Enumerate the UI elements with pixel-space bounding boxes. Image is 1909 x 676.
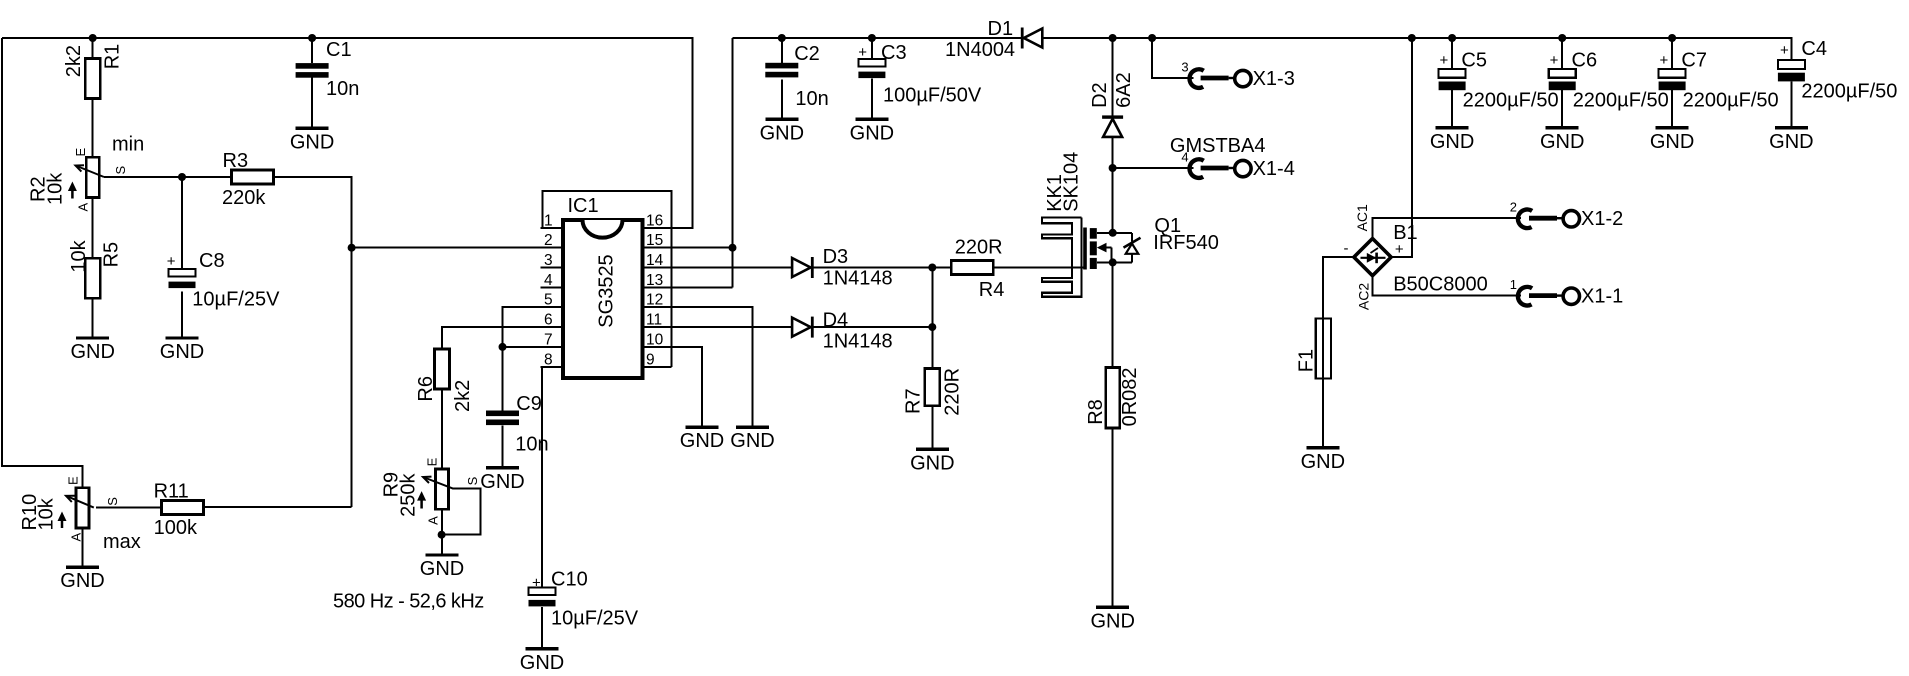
svg-text:2200µF/50: 2200µF/50 [1801, 81, 1897, 103]
svg-text:GND: GND [1650, 131, 1694, 153]
ground C5 [1430, 128, 1474, 153]
node X1-4 junction [1109, 164, 1117, 172]
connector X1-3 [1181, 60, 1294, 91]
svg-text:S: S [113, 166, 128, 175]
node pin2 junction [348, 244, 356, 252]
svg-text:15: 15 [646, 232, 663, 249]
capacitor C6 [1549, 49, 1669, 111]
svg-text:A: A [76, 203, 91, 212]
svg-text:+: + [532, 575, 541, 592]
fuse F1 [1295, 318, 1331, 378]
node R2 wiper junction [178, 173, 186, 181]
resistor R7 [903, 368, 964, 416]
node B1 plus junction [1408, 34, 1416, 42]
wire R3 to pin2 vertical [274, 177, 352, 507]
svg-text:GND: GND [1301, 451, 1345, 473]
bridge rectifier B1 B50C8000 [1344, 204, 1488, 310]
svg-text:X1-3: X1-3 [1253, 68, 1295, 90]
svg-text:C10: C10 [551, 569, 588, 591]
wire R1 to R2 [92, 99, 94, 158]
wire X1-4 node to drain [1112, 168, 1114, 233]
connector X1-4 [1181, 150, 1294, 181]
wire C9 to ground [502, 425, 504, 468]
svg-text:B1: B1 [1393, 222, 1417, 244]
svg-text:B50C8000: B50C8000 [1393, 274, 1488, 296]
svg-text:100µF/50V: 100µF/50V [883, 85, 982, 107]
svg-text:SG3525: SG3525 [596, 254, 618, 327]
svg-text:1N4148: 1N4148 [823, 268, 893, 290]
resistor R5 [68, 239, 122, 298]
wire pin8 to C10 [542, 367, 563, 588]
svg-text:X1-4: X1-4 [1253, 158, 1295, 180]
svg-text:GND: GND [1769, 131, 1813, 153]
ground C7 [1650, 128, 1694, 153]
svg-text:+: + [858, 44, 867, 61]
wire supply rail right of D1 [1044, 38, 1792, 60]
resistor R6 [415, 349, 474, 412]
svg-text:10k: 10k [68, 239, 90, 272]
ground R9 [420, 555, 464, 580]
svg-text:10k: 10k [44, 172, 66, 205]
connector X1-1 [1510, 277, 1623, 308]
svg-text:+: + [1550, 52, 1559, 69]
svg-text:GND: GND [480, 471, 524, 493]
svg-text:2200µF/50: 2200µF/50 [1683, 90, 1779, 112]
wire C3 to ground [871, 78, 873, 119]
label frequency range [333, 591, 484, 613]
resistor R1 [63, 44, 124, 99]
svg-text:6: 6 [544, 312, 553, 329]
svg-text:D1: D1 [988, 18, 1014, 40]
svg-text:GND: GND [850, 122, 894, 144]
svg-text:10µF/25V: 10µF/25V [551, 608, 639, 630]
svg-text:C4: C4 [1801, 38, 1827, 60]
svg-text:R3: R3 [223, 150, 249, 172]
ground C10 [520, 649, 564, 674]
svg-text:10k: 10k [35, 497, 57, 530]
wire B1 AC1 to X1-2 [1373, 218, 1522, 239]
svg-text:GND: GND [290, 131, 334, 153]
wire R2 wiper to node [104, 176, 182, 178]
svg-text:GND: GND [760, 122, 804, 144]
svg-text:220R: 220R [955, 237, 1003, 259]
svg-text:C7: C7 [1681, 49, 1707, 71]
wire pin12 to ground [641, 307, 753, 427]
svg-text:3: 3 [1181, 60, 1188, 75]
svg-text:A: A [68, 533, 83, 542]
svg-text:2200µF/50: 2200µF/50 [1573, 90, 1669, 112]
svg-text:2: 2 [1510, 200, 1517, 215]
svg-text:R6: R6 [415, 376, 437, 402]
capacitor C1 [296, 39, 360, 100]
diode D4 1N4148 [792, 310, 893, 353]
wire C6 top [1561, 38, 1563, 69]
svg-text:GND: GND [420, 558, 464, 580]
svg-text:10n: 10n [795, 88, 828, 110]
node R1/VREF junction [89, 34, 97, 42]
wire B1 plus to rail [1391, 38, 1412, 257]
wire R10 wiper to R11 [96, 507, 162, 509]
wire R6 to R9 [441, 388, 443, 469]
svg-text:10: 10 [646, 331, 664, 348]
svg-text:GND: GND [1540, 131, 1584, 153]
svg-text:2: 2 [544, 232, 553, 249]
wire C5 to ground [1451, 90, 1453, 128]
svg-text:D3: D3 [823, 246, 849, 268]
wire C8 to ground [181, 291, 183, 338]
node D3 output junction [928, 264, 936, 272]
svg-text:max: max [103, 531, 141, 553]
potentiometer R9 [381, 457, 480, 525]
capacitor C5 [1439, 49, 1559, 111]
svg-text:3: 3 [544, 252, 553, 269]
svg-text:X1-2: X1-2 [1581, 208, 1623, 230]
wire R8 to ground [1112, 428, 1114, 607]
svg-text:GND: GND [160, 341, 204, 363]
svg-text:C1: C1 [326, 39, 352, 61]
diode D1 1N4004 [945, 18, 1042, 61]
svg-text:IRF540: IRF540 [1153, 232, 1219, 254]
svg-text:D4: D4 [823, 310, 849, 332]
node C1 junction [308, 34, 316, 42]
capacitor C9 [486, 393, 549, 456]
svg-text:E: E [425, 457, 440, 466]
ground C2 [760, 119, 804, 144]
wire C2 top [781, 38, 783, 63]
svg-text:2k2: 2k2 [63, 45, 85, 77]
svg-text:C3: C3 [881, 42, 907, 64]
resistor R11 [154, 481, 204, 540]
svg-text:2200µF/50: 2200µF/50 [1463, 90, 1559, 112]
ground pin12 [730, 427, 774, 452]
wire R2 to R5 [92, 198, 94, 259]
svg-text:S: S [465, 476, 480, 485]
label max [103, 531, 141, 553]
svg-text:AC1: AC1 [1354, 204, 1370, 231]
svg-text:+: + [1660, 52, 1669, 69]
arrow R10 adjust [58, 512, 67, 529]
svg-text:14: 14 [646, 252, 664, 269]
wire R1 top [92, 37, 94, 59]
wire VCC rail left of D1 [733, 37, 1021, 39]
node C5 junction [1448, 34, 1456, 42]
svg-text:GND: GND [70, 341, 114, 363]
potentiometer R2 [27, 148, 128, 212]
capacitor C7 [1659, 49, 1779, 111]
svg-text:1: 1 [544, 212, 553, 229]
wire R9 to ground [441, 507, 443, 555]
ground pin10 [680, 427, 724, 452]
svg-text:13: 13 [646, 272, 663, 289]
label GMSTBA4 [1170, 135, 1266, 157]
node R9 bottom junction [438, 531, 446, 539]
ground C8 [160, 338, 204, 363]
node C7 junction [1668, 34, 1676, 42]
svg-text:GMSTBA4: GMSTBA4 [1170, 135, 1266, 157]
svg-text:10µF/25V: 10µF/25V [192, 289, 280, 311]
ground C6 [1540, 128, 1584, 153]
svg-text:GND: GND [730, 430, 774, 452]
svg-text:AC2: AC2 [1355, 283, 1371, 310]
resistor R8 [1085, 367, 1141, 428]
wire C1 to ground [311, 76, 313, 128]
ground F1 [1301, 448, 1345, 473]
svg-text:1N4004: 1N4004 [945, 39, 1015, 61]
wire D3 node to R7 [931, 268, 933, 369]
ground R8 [1090, 607, 1134, 632]
svg-text:GND: GND [520, 652, 564, 674]
wire R10 to ground [82, 528, 84, 568]
svg-text:C6: C6 [1572, 49, 1598, 71]
svg-text:R4: R4 [979, 279, 1005, 301]
svg-text:D2: D2 [1089, 82, 1111, 108]
wire R4 to gate [994, 267, 1086, 269]
label min [112, 134, 144, 156]
arrow R9 adjust [417, 491, 426, 508]
wire D2 to X1-4 node [1112, 138, 1114, 169]
svg-text:11: 11 [646, 312, 662, 329]
svg-text:+: + [1780, 42, 1789, 59]
svg-text:2k2: 2k2 [452, 380, 474, 412]
svg-text:10n: 10n [515, 434, 548, 456]
svg-text:GND: GND [910, 452, 954, 474]
svg-text:R1: R1 [102, 44, 124, 70]
wire D4 to node [814, 326, 933, 328]
svg-text:C5: C5 [1461, 49, 1487, 71]
wire R7 to ground [931, 406, 933, 450]
wire C7 to ground [1671, 90, 1673, 128]
svg-text:IC1: IC1 [568, 195, 599, 217]
svg-text:S: S [105, 497, 120, 506]
connector X1-2 [1510, 200, 1623, 231]
svg-text:GND: GND [60, 570, 104, 592]
diode D2 6A2 [1089, 72, 1135, 137]
wire node to R3 [182, 176, 231, 178]
svg-text:A: A [425, 516, 440, 525]
wire D3 to node [814, 267, 933, 269]
svg-text:1: 1 [1510, 277, 1517, 292]
wire C2 to ground [781, 80, 783, 120]
wire C4 to ground [1790, 82, 1792, 128]
wire C7 top [1671, 38, 1673, 69]
wire B1 AC2 to X1-1 [1373, 276, 1522, 296]
ground C3 [850, 119, 894, 144]
wire D2 branch upper [1112, 38, 1114, 115]
capacitor C8 [167, 250, 280, 311]
wire C10 to ground [541, 607, 543, 649]
arrow R2 adjust [68, 182, 77, 199]
wire C3 top [871, 38, 873, 59]
capacitor C4 [1778, 38, 1898, 102]
ground C4 [1769, 128, 1813, 153]
svg-text:R8: R8 [1085, 399, 1107, 425]
svg-text:min: min [112, 134, 144, 156]
node pin7 junction [499, 343, 507, 351]
ground C1 [290, 128, 334, 153]
wire C1 top [311, 37, 313, 63]
potentiometer R10 [19, 476, 120, 542]
svg-text:8: 8 [544, 351, 553, 368]
node C6 junction [1558, 34, 1566, 42]
capacitor C10 [529, 569, 639, 630]
svg-text:R5: R5 [100, 242, 122, 268]
ground C9 [480, 468, 524, 493]
label Q1 [1153, 215, 1219, 254]
svg-text:6A2: 6A2 [1113, 72, 1135, 108]
svg-text:F1: F1 [1295, 349, 1317, 372]
svg-text:220k: 220k [222, 187, 266, 209]
svg-text:250k: 250k [397, 473, 419, 517]
wire pin11 to D4 [641, 326, 792, 328]
resistor R3 [222, 150, 273, 209]
svg-text:R11: R11 [154, 481, 189, 503]
wire C5 top [1451, 38, 1453, 69]
svg-text:7: 7 [544, 331, 553, 348]
node pin15 junction [729, 244, 737, 252]
svg-text:R7: R7 [903, 388, 925, 414]
wire X1-3 stub [1152, 38, 1193, 78]
svg-text:0R082: 0R082 [1119, 367, 1141, 426]
wire X1-4 stub [1113, 167, 1194, 169]
svg-text:1N4148: 1N4148 [823, 331, 893, 353]
wire B1 minus to F1 [1323, 257, 1354, 318]
resistor R4 [951, 237, 1004, 302]
svg-text:16: 16 [646, 212, 663, 229]
svg-text:+: + [1440, 52, 1449, 69]
wire R9 wiper loop [442, 489, 481, 535]
wire VCC vertical [732, 38, 734, 287]
svg-text:-: - [1344, 240, 1349, 257]
wire pin5 to vertical [503, 307, 564, 347]
wire R5 to ground [92, 298, 94, 338]
svg-text:12: 12 [646, 292, 663, 309]
capacitor C3 [858, 42, 982, 107]
svg-text:C2: C2 [794, 43, 820, 65]
diode D3 1N4148 [792, 246, 893, 290]
svg-text:9: 9 [646, 351, 655, 368]
transistor Q1 IRF540 [1083, 228, 1140, 270]
svg-text:4: 4 [544, 272, 553, 289]
wire pin15 [641, 247, 733, 249]
wire pin6 to R6 [442, 327, 563, 349]
wire node to R4 [932, 267, 951, 269]
svg-text:GND: GND [680, 430, 724, 452]
node C2 junction [778, 34, 786, 42]
svg-text:E: E [73, 148, 88, 157]
svg-text:100k: 100k [154, 517, 198, 539]
svg-text:580 Hz - 52,6 kHz: 580 Hz - 52,6 kHz [333, 591, 484, 613]
wire F1 to ground [1322, 378, 1324, 448]
svg-text:GND: GND [1090, 610, 1134, 632]
node D2 top junction [1109, 34, 1117, 42]
wire pin14 to D3 [641, 267, 792, 269]
svg-text:10n: 10n [326, 78, 359, 100]
node Q1 drain junction [1109, 229, 1117, 237]
wire left edge to R10 [2, 38, 83, 488]
svg-text:C9: C9 [516, 393, 542, 415]
ground R10 [60, 567, 104, 592]
svg-text:220R: 220R [941, 368, 963, 416]
capacitor C2 [765, 43, 828, 110]
wire node to C8 [181, 177, 183, 269]
node X1-3 junction [1148, 34, 1156, 42]
wire R11 to vertical [204, 506, 352, 508]
svg-text:GND: GND [1430, 131, 1474, 153]
ground R7 [910, 449, 954, 474]
node C3 junction [868, 34, 876, 42]
node Q1 source junction [1109, 258, 1117, 266]
svg-text:X1-1: X1-1 [1581, 286, 1623, 308]
svg-text:E: E [66, 476, 81, 485]
op-amp IC1 SG3525 [540, 191, 671, 378]
wire to C9 [502, 347, 504, 411]
wire source to R8 [1112, 262, 1114, 367]
svg-text:C8: C8 [199, 250, 225, 272]
svg-text:SK104: SK104 [1061, 152, 1083, 212]
wire C6 to ground [1561, 90, 1563, 128]
wire pin10 to ground [641, 347, 702, 427]
heatsink KK1 SK104 [1042, 152, 1083, 297]
wire pin7 [503, 346, 564, 348]
ground R5 [70, 338, 114, 363]
wire VREF top rail [2, 38, 693, 228]
svg-text:+: + [167, 253, 176, 270]
wire pin13 [641, 286, 733, 288]
wire pin2 [352, 247, 563, 249]
svg-text:5: 5 [544, 292, 553, 309]
node D4 output junction [928, 323, 936, 331]
